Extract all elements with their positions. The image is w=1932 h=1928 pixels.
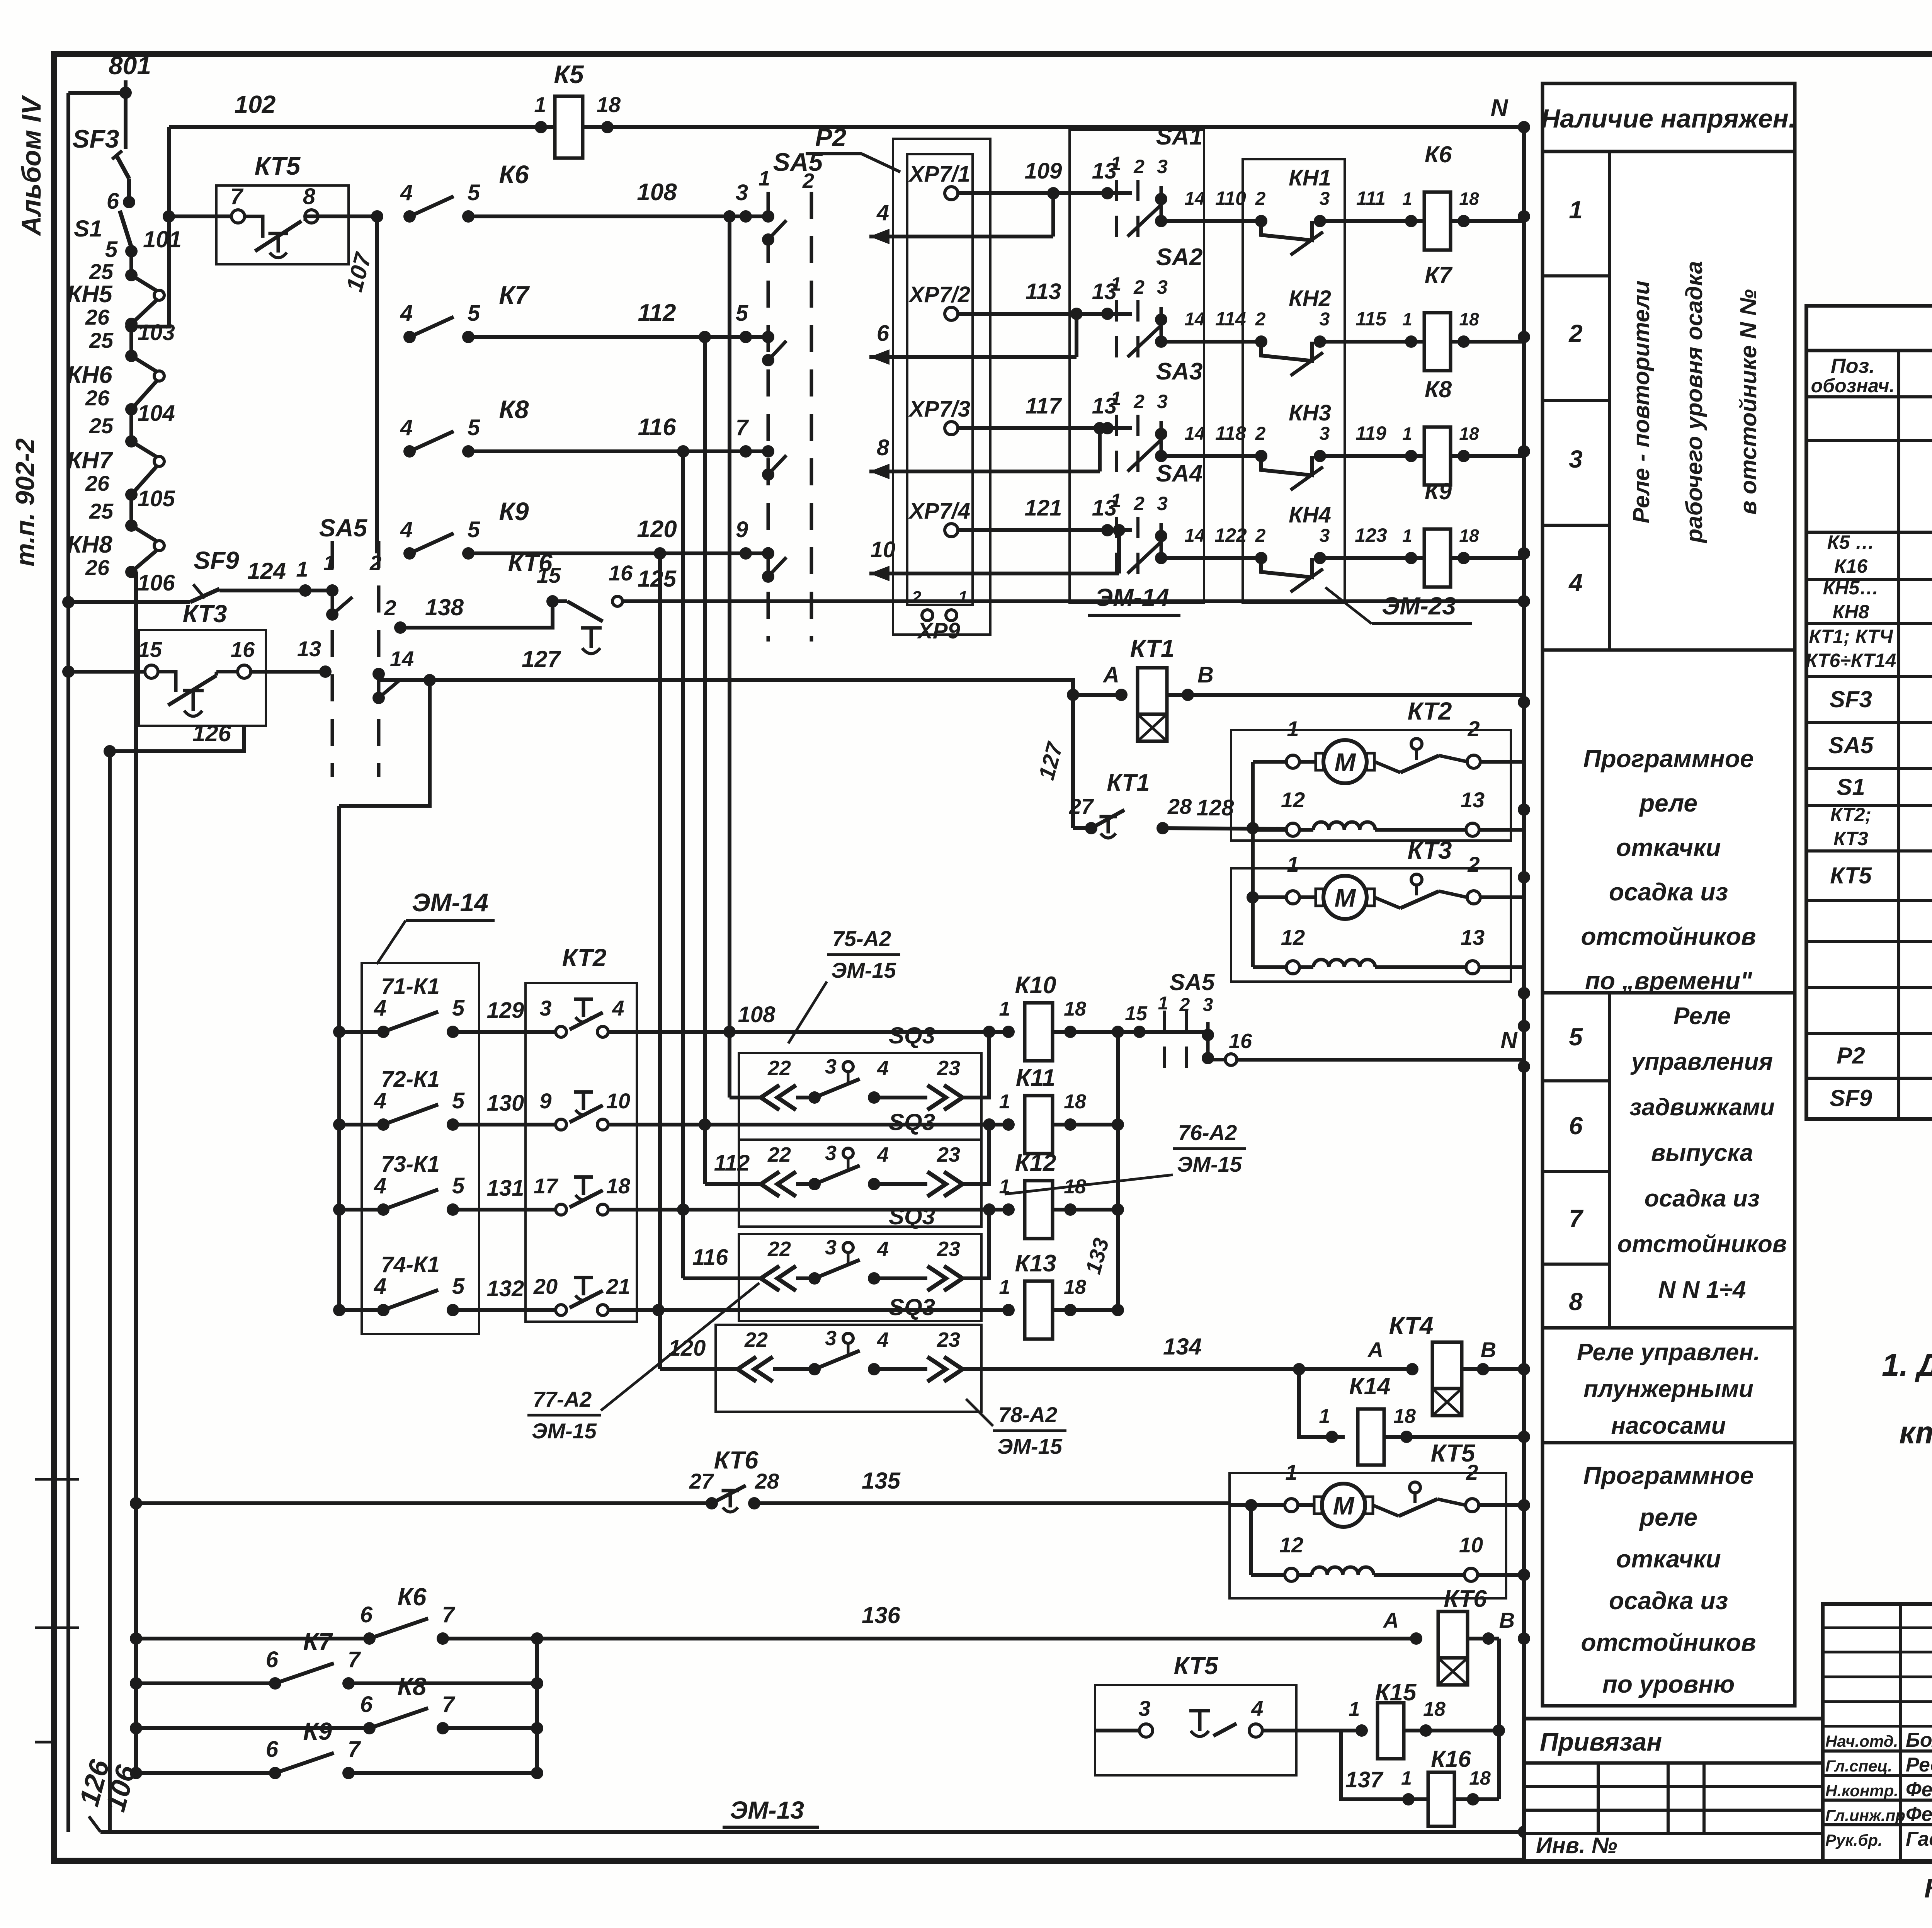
svg-text:Гл.инж.пр: Гл.инж.пр xyxy=(1825,1806,1905,1824)
connector XP9 xyxy=(922,610,933,621)
svg-text:22: 22 xyxy=(767,1057,791,1080)
svg-text:2: 2 xyxy=(1179,995,1190,1015)
wire 112 xyxy=(468,335,768,339)
svg-text:135: 135 xyxy=(862,1468,901,1494)
relay contact К8 xyxy=(403,445,416,458)
svg-text:7: 7 xyxy=(348,1737,361,1762)
svg-text:Редникин: Редникин xyxy=(1906,1754,1932,1776)
svg-text:КТ5: КТ5 xyxy=(1174,1652,1219,1680)
svg-text:12: 12 xyxy=(1279,1533,1303,1557)
stub wire 8 with arrow xyxy=(1098,428,1102,471)
svg-text:123: 123 xyxy=(1355,524,1387,546)
svg-text:14: 14 xyxy=(1184,309,1205,330)
svg-text:4: 4 xyxy=(400,517,413,542)
svg-text:S1: S1 xyxy=(74,216,102,242)
svg-text:18: 18 xyxy=(597,92,621,117)
svg-text:119: 119 xyxy=(1355,422,1386,444)
svg-text:78-А2: 78-А2 xyxy=(998,1402,1058,1427)
svg-text:3: 3 xyxy=(1157,276,1168,298)
limit switch SQ3 box (row 108) xyxy=(739,1053,981,1140)
svg-text:4: 4 xyxy=(400,415,413,440)
svg-text:КТ2: КТ2 xyxy=(562,944,607,972)
svg-text:М: М xyxy=(1335,883,1357,912)
KH1-KH4 group box xyxy=(1243,159,1345,603)
svg-text:3: 3 xyxy=(1157,493,1168,514)
svg-text:К6: К6 xyxy=(1425,141,1452,167)
wire 121 xyxy=(958,528,1132,532)
svg-text:120: 120 xyxy=(668,1336,706,1361)
svg-text:16: 16 xyxy=(1229,1030,1252,1053)
svg-text:1: 1 xyxy=(534,92,546,117)
left vertical bus wire xyxy=(66,93,70,1832)
svg-text:К11: К11 xyxy=(1016,1065,1055,1091)
svg-text:1: 1 xyxy=(1319,1405,1330,1428)
svg-text:отстойников: отстойников xyxy=(1581,922,1756,950)
SA5 wiper at row К6 xyxy=(762,210,774,223)
svg-text:5: 5 xyxy=(468,415,480,440)
svg-text:К9: К9 xyxy=(499,497,529,526)
svg-text:3: 3 xyxy=(1320,309,1330,330)
svg-text:SA2: SA2 xyxy=(1156,244,1203,271)
svg-text:Гасумянц: Гасумянц xyxy=(1906,1828,1932,1850)
svg-text:1: 1 xyxy=(999,998,1010,1020)
svg-text:4: 4 xyxy=(612,996,624,1020)
margin tick marks xyxy=(35,1478,79,1481)
wire from bus to node 801 xyxy=(68,91,126,95)
right link vertical (bottom contacts) xyxy=(535,1639,539,1773)
svg-text:Нач.отд.: Нач.отд. xyxy=(1825,1732,1898,1750)
svg-text:18: 18 xyxy=(1423,1698,1446,1720)
svg-text:4: 4 xyxy=(877,1057,889,1080)
svg-text:127: 127 xyxy=(522,646,561,672)
svg-text:М: М xyxy=(1335,748,1357,776)
vertical bus from wire 102 down to KT5 row xyxy=(167,127,171,327)
svg-text:SF9: SF9 xyxy=(1830,1085,1872,1111)
svg-text:7: 7 xyxy=(348,1647,361,1672)
svg-text:6: 6 xyxy=(360,1602,373,1627)
svg-text:5: 5 xyxy=(452,1173,465,1198)
svg-text:3: 3 xyxy=(1320,526,1330,546)
svg-text:отстойников: отстойников xyxy=(1617,1231,1787,1258)
svg-text:1: 1 xyxy=(999,1091,1010,1113)
svg-text:S1: S1 xyxy=(1837,774,1865,800)
svg-text:ЭМ-15: ЭМ-15 xyxy=(997,1434,1063,1458)
wire 109 xyxy=(958,191,1132,195)
svg-text:18: 18 xyxy=(1393,1405,1416,1428)
svg-text:4: 4 xyxy=(374,1088,386,1113)
svg-text:Реле - повторители: Реле - повторители xyxy=(1628,281,1654,523)
svg-text:18: 18 xyxy=(1459,309,1479,329)
svg-text:105: 105 xyxy=(138,486,175,511)
junction dot bus 107 xyxy=(371,210,383,223)
svg-text:SA4: SA4 xyxy=(1156,460,1203,487)
svg-text:ЭМ-23: ЭМ-23 xyxy=(1382,592,1456,620)
svg-text:Р2: Р2 xyxy=(1837,1043,1865,1069)
time relay contact KT5 box xyxy=(216,185,349,264)
rows 5-8 xyxy=(1608,993,1611,1328)
svg-text:108: 108 xyxy=(738,1002,776,1027)
wire 116 xyxy=(468,449,768,453)
wire 106 to bus xyxy=(131,570,136,574)
svg-text:4: 4 xyxy=(877,1328,889,1351)
svg-text:К10: К10 xyxy=(1015,972,1056,999)
wire to coil К11 xyxy=(608,1123,1009,1127)
svg-text:задвижками: задвижками xyxy=(1629,1094,1775,1121)
wire to coil К12 xyxy=(608,1208,1009,1212)
svg-text:3: 3 xyxy=(1320,189,1330,209)
svg-text:4: 4 xyxy=(877,1237,889,1261)
svg-text:Копировал: Лу: Копировал: Лу xyxy=(1924,1873,1932,1903)
svg-text:7: 7 xyxy=(1569,1205,1584,1232)
svg-text:4: 4 xyxy=(400,301,413,326)
svg-text:ХР7/2: ХР7/2 xyxy=(908,282,970,307)
svg-text:12: 12 xyxy=(1281,788,1305,812)
svg-text:К13: К13 xyxy=(1015,1250,1056,1277)
svg-text:4: 4 xyxy=(1568,569,1583,597)
wire to coil К10 xyxy=(608,1030,1009,1034)
vertical link KT2-KT3 xyxy=(1251,762,1255,967)
svg-text:17: 17 xyxy=(534,1174,559,1198)
svg-text:102: 102 xyxy=(235,90,276,118)
svg-text:18: 18 xyxy=(1459,526,1479,546)
svg-text:Программное: Программное xyxy=(1583,1462,1753,1489)
svg-text:К8: К8 xyxy=(398,1673,427,1700)
svg-text:26: 26 xyxy=(85,471,110,495)
svg-text:10: 10 xyxy=(1459,1533,1483,1557)
wire 117 xyxy=(958,426,1132,430)
svg-text:SQ3: SQ3 xyxy=(889,1109,935,1135)
svg-text:1: 1 xyxy=(1287,716,1299,741)
svg-text:КН5…: КН5… xyxy=(1823,577,1879,599)
svg-text:отстойников: отстойников xyxy=(1581,1629,1756,1656)
svg-text:КН3: КН3 xyxy=(1289,400,1331,425)
svg-text:14: 14 xyxy=(1184,526,1205,546)
svg-text:108: 108 xyxy=(637,179,677,206)
relay contact КН7 xyxy=(125,435,138,448)
vertical wire 108 xyxy=(728,216,731,1098)
svg-text:Р2: Р2 xyxy=(815,123,847,151)
svg-text:3: 3 xyxy=(1138,1696,1150,1720)
svg-text:6: 6 xyxy=(1569,1112,1583,1140)
svg-text:124: 124 xyxy=(247,558,286,584)
relay contact К8 (bottom) xyxy=(136,1726,369,1730)
svg-text:76-А2: 76-А2 xyxy=(1178,1120,1237,1145)
bottom bus wire xyxy=(100,1830,1524,1834)
svg-text:ХР7/4: ХР7/4 xyxy=(908,499,970,524)
wire 102 top rail xyxy=(169,125,1524,129)
svg-text:5: 5 xyxy=(105,237,118,262)
svg-text:ХР7/3: ХР7/3 xyxy=(908,396,970,422)
svg-text:К7: К7 xyxy=(303,1628,333,1656)
svg-text:SQ3: SQ3 xyxy=(889,1203,935,1229)
svg-text:110: 110 xyxy=(1215,187,1246,209)
wire 102 riser xyxy=(131,127,169,327)
SQ3 row 112 link up xyxy=(963,1125,989,1184)
title block: signature table xyxy=(1823,1604,1932,1861)
svg-text:129: 129 xyxy=(487,998,524,1023)
svg-text:23: 23 xyxy=(937,1143,960,1166)
svg-text:26: 26 xyxy=(85,386,110,410)
svg-text:18: 18 xyxy=(1064,998,1086,1020)
svg-text:ЭМ-14: ЭМ-14 xyxy=(1095,584,1169,611)
vertical bus 107 xyxy=(375,216,379,553)
vertical bus 133 xyxy=(1116,1032,1120,1310)
link from wire 127 to EM-14 rows xyxy=(339,680,430,806)
svg-text:Привязан: Привязан xyxy=(1540,1727,1662,1756)
wire 134 xyxy=(963,1367,1412,1371)
svg-text:14: 14 xyxy=(1184,424,1205,444)
svg-text:18: 18 xyxy=(1459,189,1479,209)
svg-text:2: 2 xyxy=(384,596,396,620)
svg-text:К12: К12 xyxy=(1015,1150,1056,1176)
svg-text:5: 5 xyxy=(452,1088,465,1113)
vertical bus wire 126 xyxy=(108,751,112,1832)
svg-text:3: 3 xyxy=(825,1055,837,1078)
svg-text:3: 3 xyxy=(825,1236,837,1259)
wire 127 xyxy=(379,680,1121,695)
svg-text:2: 2 xyxy=(1255,526,1266,546)
svg-text:КТ1: КТ1 xyxy=(1130,635,1175,662)
svg-text:К6: К6 xyxy=(499,160,529,189)
svg-text:N N 1÷4: N N 1÷4 xyxy=(1658,1276,1746,1303)
svg-text:М: М xyxy=(1333,1491,1355,1520)
svg-text:КТ1: КТ1 xyxy=(1107,769,1150,796)
svg-text:2: 2 xyxy=(1467,852,1480,876)
svg-text:8: 8 xyxy=(1569,1288,1583,1315)
svg-text:К14: К14 xyxy=(1349,1373,1390,1400)
wire 14 row К9 xyxy=(1161,556,1261,560)
svg-text:Болотов: Болотов xyxy=(1906,1729,1932,1751)
stub wire 4 with arrow xyxy=(1051,193,1055,237)
svg-text:77-А2: 77-А2 xyxy=(533,1387,592,1411)
svg-text:13: 13 xyxy=(297,636,321,661)
svg-text:Альбом IV: Альбом IV xyxy=(16,95,46,236)
svg-text:6: 6 xyxy=(266,1737,279,1762)
svg-text:К7: К7 xyxy=(499,281,530,309)
svg-text:выпуска: выпуска xyxy=(1651,1140,1753,1166)
relay coil K14 branch xyxy=(1299,1369,1345,1437)
svg-text:КТ2: КТ2 xyxy=(1408,697,1452,725)
SQ3 contact row 112 xyxy=(761,1172,779,1196)
svg-text:2: 2 xyxy=(1133,276,1145,298)
svg-text:112: 112 xyxy=(714,1150,750,1176)
svg-text:4: 4 xyxy=(1251,1696,1263,1720)
svg-text:откачки: откачки xyxy=(1616,834,1721,861)
junction vertical EM-14 rows xyxy=(337,806,341,1310)
svg-text:Реле: Реле xyxy=(1673,1003,1731,1030)
contact 71-К1 xyxy=(339,1030,383,1034)
svg-text:130: 130 xyxy=(487,1091,524,1116)
svg-text:1: 1 xyxy=(1111,153,1121,174)
wire 113 xyxy=(958,312,1132,316)
svg-text:25: 25 xyxy=(89,414,114,438)
svg-text:5: 5 xyxy=(468,517,480,542)
svg-text:28: 28 xyxy=(755,1469,779,1493)
SQ3 contact row 116 xyxy=(761,1266,779,1291)
svg-text:плунжерными: плунжерными xyxy=(1583,1376,1753,1402)
svg-text:откачки: откачки xyxy=(1616,1545,1721,1573)
svg-text:138: 138 xyxy=(425,594,464,620)
svg-text:2: 2 xyxy=(1568,320,1583,347)
time contact KT5 box (bottom) xyxy=(1095,1685,1296,1775)
svg-text:2: 2 xyxy=(369,551,381,575)
svg-text:75-А2: 75-А2 xyxy=(832,926,891,951)
relay contact КН5 xyxy=(125,269,138,281)
svg-text:В: В xyxy=(1197,662,1214,687)
limit switch SQ3 box (row 120) xyxy=(716,1325,981,1412)
svg-text:Программное: Программное xyxy=(1583,745,1753,773)
svg-text:18: 18 xyxy=(1064,1091,1086,1113)
svg-text:ЭМ-15: ЭМ-15 xyxy=(831,958,896,982)
svg-text:8: 8 xyxy=(303,184,316,209)
svg-text:SF3: SF3 xyxy=(72,124,119,153)
contact 73-К1 xyxy=(339,1208,383,1212)
svg-text:по уровню: по уровню xyxy=(1602,1670,1735,1698)
relay contact КН6 xyxy=(125,350,138,362)
svg-text:132: 132 xyxy=(487,1276,524,1301)
svg-text:15: 15 xyxy=(537,563,561,587)
svg-text:25: 25 xyxy=(89,499,114,523)
SQ3 row 116 link up xyxy=(963,1210,989,1278)
svg-text:К8: К8 xyxy=(1425,376,1452,402)
svg-text:А: А xyxy=(1367,1338,1383,1362)
vertical from wire 127 to KT1 contact xyxy=(1071,695,1075,828)
wire 136 xyxy=(537,1637,1416,1640)
wire 14 row К7 xyxy=(1161,340,1261,344)
svg-text:25: 25 xyxy=(89,328,114,352)
svg-text:1: 1 xyxy=(1569,196,1583,224)
svg-text:КТ1; КТЧ: КТ1; КТЧ xyxy=(1809,626,1893,647)
svg-text:4: 4 xyxy=(877,1143,889,1166)
svg-text:SA5: SA5 xyxy=(319,514,368,542)
svg-text:2: 2 xyxy=(1466,1460,1478,1484)
svg-text:А: А xyxy=(1102,662,1119,687)
svg-text:КТ3: КТ3 xyxy=(1833,828,1868,849)
KT2 pushbutton box xyxy=(526,983,637,1322)
voltage presence table xyxy=(1543,83,1795,1706)
wire 108 xyxy=(468,214,768,218)
svg-text:23: 23 xyxy=(937,1057,960,1080)
svg-text:15: 15 xyxy=(1125,1002,1148,1025)
svg-text:13: 13 xyxy=(1461,788,1485,812)
svg-text:КТ6: КТ6 xyxy=(1444,1586,1487,1612)
wire 14 row К6 xyxy=(1161,219,1261,223)
svg-text:121: 121 xyxy=(1025,495,1062,521)
svg-text:4: 4 xyxy=(374,995,386,1021)
svg-text:18: 18 xyxy=(606,1174,631,1198)
svg-text:КТ3: КТ3 xyxy=(1408,836,1452,864)
svg-text:5: 5 xyxy=(736,301,748,326)
title block: left attachment table xyxy=(1524,1719,1823,1861)
svg-text:КН2: КН2 xyxy=(1289,286,1331,311)
right vertical bus N xyxy=(1522,127,1526,1832)
svg-text:КН6: КН6 xyxy=(67,362,112,388)
svg-text:7: 7 xyxy=(736,415,749,440)
svg-text:112: 112 xyxy=(638,299,676,326)
relay contact К6 (bottom) xyxy=(136,1637,369,1640)
svg-text:1: 1 xyxy=(759,167,770,190)
svg-text:3: 3 xyxy=(539,996,551,1020)
wire 135 xyxy=(754,1501,1230,1505)
svg-text:18: 18 xyxy=(1469,1767,1491,1789)
svg-text:801: 801 xyxy=(109,51,151,80)
svg-text:22: 22 xyxy=(744,1328,768,1351)
contact 74-К1 xyxy=(339,1308,383,1312)
svg-text:8: 8 xyxy=(877,435,889,460)
svg-text:3: 3 xyxy=(1569,445,1583,473)
svg-text:3: 3 xyxy=(1320,424,1330,444)
svg-text:Н.контр.: Н.контр. xyxy=(1825,1782,1898,1800)
svg-text:2: 2 xyxy=(1467,716,1480,741)
svg-text:КН8: КН8 xyxy=(67,531,112,558)
svg-text:13: 13 xyxy=(1461,925,1485,950)
SA5 selector dashed lines (top) xyxy=(767,192,770,642)
svg-text:В: В xyxy=(1481,1338,1496,1362)
svg-text:21: 21 xyxy=(606,1274,630,1298)
svg-text:К5: К5 xyxy=(554,60,584,88)
svg-text:22: 22 xyxy=(767,1237,791,1261)
svg-text:1: 1 xyxy=(323,551,335,575)
svg-text:в отстойнике N №: в отстойнике N № xyxy=(1735,289,1761,514)
svg-text:136: 136 xyxy=(862,1602,901,1628)
svg-text:120: 120 xyxy=(637,516,677,543)
svg-text:кт2, кт3, кт5 черт. ЭМ-11.: кт2, кт3, кт5 черт. ЭМ-11. xyxy=(1899,1415,1932,1450)
svg-text:КТ6: КТ6 xyxy=(714,1446,759,1474)
vertical wire 116 xyxy=(681,451,685,1278)
svg-text:1. Диаграмма настройки рел: 1. Диаграмма настройки реле времени xyxy=(1882,1348,1932,1383)
limit switch SQ3 box (row 116) xyxy=(739,1234,981,1321)
svg-text:101: 101 xyxy=(143,226,182,252)
svg-text:1: 1 xyxy=(1158,993,1168,1014)
svg-text:3: 3 xyxy=(1203,995,1213,1015)
svg-text:К16: К16 xyxy=(1431,1746,1471,1772)
svg-text:128: 128 xyxy=(1197,795,1235,820)
svg-text:1: 1 xyxy=(296,557,308,581)
svg-text:71-К1: 71-К1 xyxy=(381,974,440,999)
svg-text:N: N xyxy=(1500,1027,1518,1053)
svg-text:КТ2;: КТ2; xyxy=(1830,804,1871,825)
svg-text:131: 131 xyxy=(487,1176,524,1201)
svg-text:К5 …: К5 … xyxy=(1827,531,1874,553)
svg-text:по „времени": по „времени" xyxy=(1585,967,1752,995)
wire 128 xyxy=(1163,828,1288,829)
svg-text:КН7: КН7 xyxy=(67,447,113,474)
SA1-SA4 group box xyxy=(1070,130,1204,603)
svg-text:2: 2 xyxy=(802,169,814,192)
svg-text:Фешин: Фешин xyxy=(1906,1803,1932,1826)
svg-text:10: 10 xyxy=(606,1089,630,1113)
svg-text:137: 137 xyxy=(1345,1767,1384,1792)
XP7 connector inner box xyxy=(907,154,973,605)
svg-text:1: 1 xyxy=(1349,1698,1360,1720)
wire to N (row 16) xyxy=(1225,1054,1237,1065)
svg-text:23: 23 xyxy=(937,1328,960,1351)
svg-text:5: 5 xyxy=(468,301,480,326)
vertical bus wire 106 xyxy=(134,572,138,1773)
svg-text:10: 10 xyxy=(871,537,896,562)
svg-text:SA1: SA1 xyxy=(1156,123,1203,150)
svg-text:122: 122 xyxy=(1214,524,1247,546)
wire 125 xyxy=(622,599,1524,603)
svg-text:SA5: SA5 xyxy=(1828,732,1874,758)
SA5 wiper at row К7 xyxy=(762,331,774,343)
svg-text:5: 5 xyxy=(468,180,480,205)
svg-text:ЭМ-14: ЭМ-14 xyxy=(412,888,488,917)
svg-text:28: 28 xyxy=(1167,794,1192,819)
relay contact К9 xyxy=(403,547,416,560)
svg-text:7: 7 xyxy=(230,184,244,209)
relay contact К7 (bottom) xyxy=(136,1681,275,1685)
